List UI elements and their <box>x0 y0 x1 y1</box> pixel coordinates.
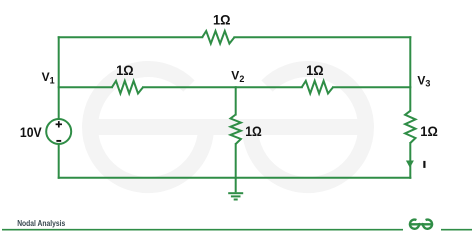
current arrow I <box>406 161 426 168</box>
svg-text:1Ω: 1Ω <box>245 123 262 139</box>
resistor R3 1ohm <box>302 62 333 94</box>
watermark logo <box>90 69 366 185</box>
svg-text:1Ω: 1Ω <box>213 12 231 28</box>
wire left branch bottom <box>58 144 60 178</box>
wire left branch top <box>58 37 60 119</box>
resistor R2 1ohm <box>112 62 143 94</box>
ground <box>228 178 243 200</box>
footer rule <box>2 229 472 231</box>
svg-text:1Ω: 1Ω <box>306 62 324 78</box>
wire V2 branch bottom <box>235 144 237 178</box>
wire middle <box>59 86 411 88</box>
resistor R4 1ohm <box>231 115 262 145</box>
svg-text:1Ω: 1Ω <box>420 123 438 139</box>
resistor R1 1ohm <box>202 12 234 44</box>
svg-text:1Ω: 1Ω <box>116 62 134 78</box>
wire top <box>59 36 411 38</box>
svg-text:10V: 10V <box>20 124 42 140</box>
wire bottom <box>59 177 411 179</box>
svg-text:Nodal Analysis: Nodal Analysis <box>17 219 65 228</box>
resistor R5 1ohm <box>405 111 438 143</box>
wire right branch bottom <box>409 143 411 178</box>
wire right branch top <box>409 37 411 111</box>
voltage source 10V <box>20 119 71 144</box>
wire V2 branch top <box>235 87 237 114</box>
footer GfG logo <box>409 220 433 229</box>
